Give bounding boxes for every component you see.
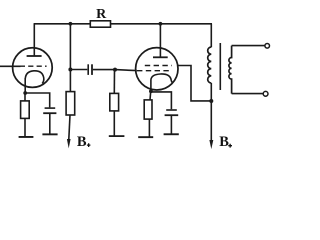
node V2 cathode junction — [149, 89, 153, 93]
wire V2 cathode to Ck2 — [151, 92, 172, 109]
tube V2 envelope — [136, 48, 178, 90]
wire Ck1 to ground — [49, 114, 51, 134]
wire V2 screen feed — [178, 66, 211, 101]
wire secondary top lead — [232, 45, 265, 47]
tube V2 control grid (dashed) — [137, 70, 170, 72]
tube V1 plate — [27, 55, 42, 57]
capacitor Ck2 — [166, 109, 177, 111]
transformer T1 primary winding — [208, 47, 212, 83]
wire V2 plate lead — [159, 24, 161, 58]
capacitor Ck1 — [45, 107, 56, 109]
svg-text:B: B — [219, 134, 229, 150]
wire plate lead V1 to top rail — [33, 24, 35, 56]
terminal top — [265, 44, 270, 49]
wire Rg2 lead — [113, 70, 115, 94]
wire V1 cathode lead — [24, 78, 26, 93]
resistor Rk2 — [144, 100, 152, 119]
tube V1 cathode — [25, 71, 44, 84]
ground Ck1 — [42, 133, 57, 135]
wire V2 cathode lead — [150, 80, 152, 91]
terminal bottom — [263, 91, 268, 96]
B+ arrow left — [67, 139, 71, 148]
tube V1 grid (dashed) — [20, 65, 47, 67]
resistor R — [90, 21, 110, 27]
wire rail drop to transformer primary — [210, 24, 212, 47]
wire dropper from rail down to coupling node — [69, 24, 71, 70]
node grid resistor junction — [113, 68, 117, 72]
B+ arrow right — [209, 140, 213, 149]
node junction top rail / dropper — [69, 22, 73, 26]
node primary / screen / B+ junction — [209, 99, 213, 103]
wire Rk2 to ground — [148, 119, 150, 137]
tube V2 plate — [153, 56, 168, 58]
wire Cc to V2 grid — [93, 69, 115, 71]
ground Rk2 — [138, 136, 153, 138]
node V1 cathode junction — [23, 91, 27, 95]
resistor R1 dropper to B+ — [69, 70, 71, 92]
node junction top rail / V2 plate — [159, 22, 163, 26]
transformer T1 secondary winding — [229, 46, 232, 94]
ground Rg2 — [109, 135, 125, 137]
wire coupling node to Cc — [70, 69, 87, 71]
ground Rk1 — [19, 136, 34, 138]
wire secondary bottom lead — [232, 93, 264, 95]
svg-text:B: B — [77, 134, 87, 150]
wire Ck2 to ground — [170, 116, 172, 134]
tube V2 cathode — [151, 74, 172, 82]
tube V2 screen grid (dashed) — [145, 65, 172, 67]
svg-text:R: R — [96, 7, 107, 22]
wire V1 grid input lead — [0, 65, 21, 67]
wire V1 cathode to Ck1 — [25, 93, 50, 107]
wire Rk1 to ground — [24, 118, 26, 136]
wire top rail right segment — [111, 23, 213, 25]
wire V1 cathode to Rk1 — [24, 93, 26, 101]
tube V1 envelope — [13, 48, 53, 88]
node coupling junction — [68, 68, 72, 72]
transformer T1 core — [219, 43, 221, 90]
wire primary bottom to B+ — [210, 83, 212, 140]
wire Rg2 to ground — [113, 111, 115, 136]
wire V2 cathode to Rk2 — [149, 91, 152, 100]
wire R1 to B+ arrow — [69, 115, 70, 139]
wire top rail left segment — [34, 23, 91, 25]
resistor Rg2 — [110, 93, 119, 111]
capacitor Cc coupling — [87, 64, 89, 75]
resistor Rk1 — [21, 101, 30, 119]
ground Ck2 — [164, 133, 179, 135]
